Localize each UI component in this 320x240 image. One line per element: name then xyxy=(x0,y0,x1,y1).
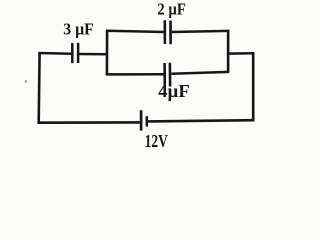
capacitor 2µF (plates) xyxy=(165,20,171,44)
svg-text:3 µF: 3 µF xyxy=(63,20,94,39)
wire parallel box right edge xyxy=(227,30,230,73)
wire bottom right segment (battery to right node) xyxy=(148,120,255,121)
wire bottom left segment (left node to battery) xyxy=(38,121,140,124)
wire box bottom edge right segment xyxy=(171,72,229,74)
battery 12V long plate xyxy=(140,110,143,130)
stray scan speck xyxy=(25,80,27,82)
wire top-left horizontal (left node to 3µF) xyxy=(38,52,71,55)
wire left vertical (outer loop left side) xyxy=(37,52,40,123)
wire 3µF to parallel box left xyxy=(79,53,108,56)
svg-text:2 µF: 2 µF xyxy=(157,0,185,19)
wire parallel box left edge xyxy=(106,30,109,75)
wire box right edge to outer right vertical xyxy=(228,52,255,55)
svg-text:4µF: 4µF xyxy=(158,81,190,101)
wire box bottom edge left segment xyxy=(106,73,164,76)
svg-text:12V: 12V xyxy=(145,131,168,151)
wire box top edge right segment xyxy=(172,31,230,32)
wire box top edge left segment xyxy=(106,31,164,32)
battery 12V short plate xyxy=(146,116,149,126)
capacitor 4µF (plates) xyxy=(165,63,171,87)
capacitor 3µF (plates) xyxy=(72,43,78,63)
wire right vertical (outer loop right side) xyxy=(252,52,255,121)
